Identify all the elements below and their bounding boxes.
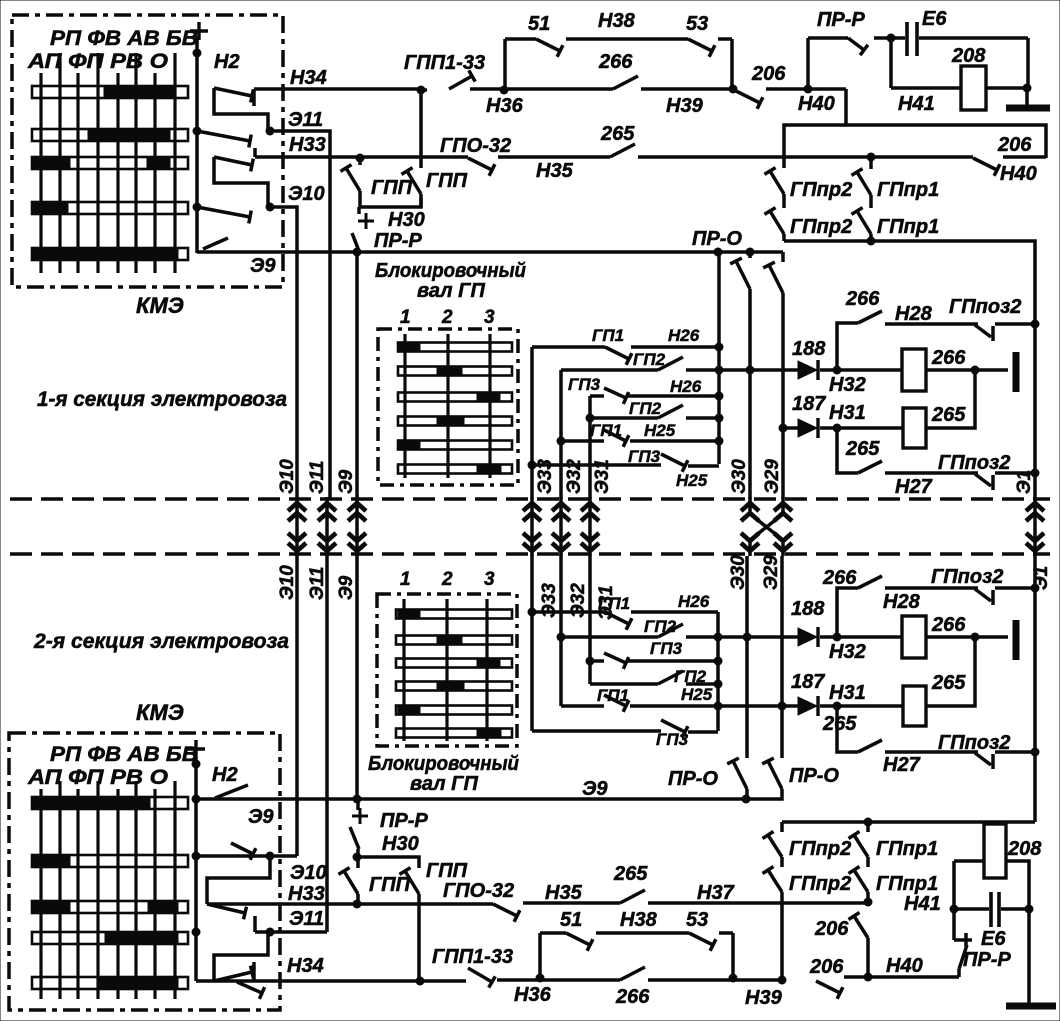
- svg-text:206: 206: [997, 134, 1032, 156]
- svg-text:2: 2: [441, 569, 453, 590]
- svg-text:1-я секция электровоза: 1-я секция электровоза: [37, 388, 287, 411]
- svg-text:3: 3: [484, 307, 495, 328]
- svg-text:206: 206: [751, 63, 786, 85]
- svg-text:Э29: Э29: [762, 459, 783, 494]
- svg-text:Н33: Н33: [289, 134, 326, 156]
- svg-text:Э9: Э9: [582, 778, 608, 800]
- svg-text:ПР-Р: ПР-Р: [963, 949, 1011, 971]
- svg-text:ГПП: ГПП: [371, 177, 413, 199]
- svg-text:3: 3: [484, 569, 495, 590]
- svg-text:Э11: Э11: [289, 908, 324, 930]
- svg-text:Н32: Н32: [829, 374, 866, 396]
- svg-text:ГПпоз2: ГПпоз2: [938, 732, 1010, 754]
- svg-text:Н38: Н38: [598, 10, 636, 32]
- svg-text:Е6: Е6: [981, 928, 1006, 950]
- svg-text:265: 265: [845, 438, 880, 460]
- svg-text:265: 265: [600, 123, 635, 145]
- svg-text:ГПпоз2: ГПпоз2: [938, 452, 1010, 474]
- svg-text:Н26: Н26: [670, 377, 702, 396]
- svg-text:Н31: Н31: [829, 402, 866, 424]
- svg-text:ГПпр2: ГПпр2: [790, 216, 852, 238]
- svg-text:ГПпр2: ГПпр2: [789, 838, 851, 860]
- svg-text:1: 1: [400, 569, 411, 590]
- svg-text:53: 53: [686, 13, 708, 35]
- svg-text:Н39: Н39: [666, 95, 704, 117]
- svg-text:ГПО-32: ГПО-32: [440, 135, 511, 157]
- svg-text:ГП3: ГП3: [656, 730, 689, 749]
- svg-text:265: 265: [613, 863, 648, 885]
- svg-text:266: 266: [615, 986, 650, 1008]
- svg-text:265: 265: [822, 713, 857, 735]
- svg-text:Н37: Н37: [697, 882, 735, 904]
- svg-text:ГП3: ГП3: [628, 447, 661, 466]
- svg-text:Н27: Н27: [883, 754, 921, 776]
- svg-text:Н35: Н35: [536, 160, 574, 182]
- svg-text:ГПпоз2: ГПпоз2: [931, 566, 1003, 588]
- svg-text:ПР-О: ПР-О: [789, 765, 839, 787]
- svg-text:Н36: Н36: [486, 95, 524, 117]
- svg-text:266: 266: [931, 347, 966, 369]
- svg-text:266: 266: [931, 614, 966, 636]
- svg-text:Н32: Н32: [829, 641, 866, 663]
- svg-text:Н25: Н25: [644, 421, 676, 440]
- svg-text:Н31: Н31: [829, 682, 866, 704]
- svg-text:2-я секция электровоза: 2-я секция электровоза: [33, 630, 289, 653]
- svg-text:вал ГП: вал ГП: [410, 773, 478, 795]
- svg-text:Н34: Н34: [290, 67, 327, 89]
- svg-text:Н2: Н2: [214, 51, 240, 73]
- svg-text:ПР-О: ПР-О: [668, 768, 718, 790]
- svg-text:ПР-Р: ПР-Р: [374, 230, 422, 252]
- svg-text:ГП1: ГП1: [598, 594, 630, 613]
- svg-text:Э9: Э9: [336, 469, 357, 494]
- svg-text:ГПП1-33: ГПП1-33: [404, 52, 485, 74]
- svg-text:Н40: Н40: [886, 955, 923, 977]
- svg-text:266: 266: [845, 288, 880, 310]
- svg-text:Э9: Э9: [250, 255, 276, 277]
- svg-text:ГПО-32: ГПО-32: [443, 880, 514, 902]
- svg-text:ГП1: ГП1: [592, 326, 624, 345]
- svg-text:187: 187: [791, 671, 825, 693]
- svg-text:188: 188: [792, 338, 826, 360]
- svg-text:Э11: Э11: [288, 109, 323, 131]
- svg-text:Н35: Н35: [545, 882, 583, 904]
- svg-text:ПР-Р: ПР-Р: [817, 9, 865, 31]
- svg-text:Э10: Э10: [290, 862, 327, 884]
- svg-text:Э29: Э29: [761, 555, 782, 590]
- svg-text:ГПпр1: ГПпр1: [877, 179, 939, 201]
- svg-text:Н34: Н34: [287, 955, 324, 977]
- svg-text:ГПП: ГПП: [369, 874, 411, 896]
- svg-text:Н25: Н25: [676, 471, 708, 490]
- svg-text:ГП3: ГП3: [568, 375, 601, 394]
- svg-text:266: 266: [598, 51, 633, 73]
- svg-text:РП ФВ АВ БВ: РП ФВ АВ БВ: [50, 27, 198, 50]
- svg-text:208: 208: [951, 45, 986, 67]
- svg-text:187: 187: [792, 393, 826, 415]
- svg-text:КМЭ: КМЭ: [136, 700, 184, 725]
- svg-text:Н26: Н26: [668, 326, 700, 345]
- svg-text:ГПпр2: ГПпр2: [789, 873, 851, 895]
- svg-text:Э11: Э11: [307, 567, 328, 600]
- svg-text:ПР-О: ПР-О: [692, 228, 742, 250]
- svg-text:Н40: Н40: [798, 93, 835, 115]
- svg-text:ГПП: ГПП: [426, 170, 468, 192]
- svg-text:Н41: Н41: [898, 93, 935, 115]
- svg-text:ГПпр1: ГПпр1: [876, 838, 938, 860]
- svg-text:Н25: Н25: [681, 685, 713, 704]
- svg-text:265: 265: [931, 672, 966, 694]
- svg-text:ГПпр1: ГПпр1: [877, 216, 939, 238]
- svg-text:265: 265: [931, 404, 966, 426]
- svg-text:266: 266: [822, 567, 857, 589]
- svg-text:ГП2: ГП2: [644, 617, 677, 636]
- svg-text:Э9: Э9: [336, 575, 357, 600]
- svg-text:Н36: Н36: [514, 984, 552, 1006]
- svg-text:ГПпр1: ГПпр1: [876, 873, 938, 895]
- svg-text:Э10: Э10: [288, 183, 325, 205]
- svg-text:Н26: Н26: [678, 592, 710, 611]
- svg-text:ГПпр2: ГПпр2: [790, 179, 852, 201]
- svg-text:Н30: Н30: [382, 833, 419, 855]
- svg-text:Н2: Н2: [212, 764, 238, 786]
- svg-text:ГПП1-33: ГПП1-33: [432, 946, 513, 968]
- svg-text:Н39: Н39: [745, 987, 783, 1009]
- svg-text:Н28: Н28: [883, 591, 921, 613]
- svg-text:51: 51: [528, 13, 550, 35]
- svg-text:206: 206: [809, 956, 844, 978]
- svg-text:вал ГП: вал ГП: [417, 280, 485, 302]
- svg-text:Н30: Н30: [388, 209, 425, 231]
- svg-text:Н40: Н40: [1000, 163, 1037, 185]
- svg-text:Блокировочный: Блокировочный: [368, 753, 519, 775]
- svg-text:Э9: Э9: [248, 806, 274, 828]
- svg-text:Блокировочный: Блокировочный: [375, 260, 526, 282]
- svg-text:КМЭ: КМЭ: [136, 293, 184, 318]
- svg-text:51: 51: [560, 909, 582, 931]
- svg-text:ГПП: ГПП: [426, 860, 468, 882]
- svg-text:ГП2: ГП2: [674, 667, 707, 686]
- svg-text:ГП3: ГП3: [650, 639, 683, 658]
- svg-text:ГП1: ГП1: [590, 421, 622, 440]
- svg-text:Э10: Э10: [277, 565, 298, 600]
- svg-text:2: 2: [441, 307, 453, 328]
- svg-text:Е6: Е6: [922, 8, 947, 30]
- svg-text:53: 53: [686, 909, 708, 931]
- svg-text:Э11: Э11: [307, 461, 328, 494]
- svg-text:188: 188: [791, 598, 825, 620]
- svg-text:ГПпоз2: ГПпоз2: [949, 296, 1021, 318]
- svg-text:Н33: Н33: [288, 883, 325, 905]
- svg-text:Э10: Э10: [277, 459, 298, 494]
- svg-text:ГП2: ГП2: [633, 350, 666, 369]
- svg-text:208: 208: [1007, 838, 1042, 860]
- svg-text:Н28: Н28: [895, 303, 933, 325]
- svg-text:ГП2: ГП2: [629, 399, 662, 418]
- svg-text:Э30: Э30: [729, 459, 750, 494]
- svg-text:ГП1: ГП1: [597, 686, 629, 705]
- svg-text:206: 206: [814, 918, 849, 940]
- svg-text:Н27: Н27: [895, 476, 933, 498]
- svg-text:РП ФВ АВ БВ: РП ФВ АВ БВ: [50, 743, 198, 766]
- svg-text:Н41: Н41: [904, 893, 941, 915]
- svg-text:ПР-Р: ПР-Р: [380, 810, 428, 832]
- svg-text:1: 1: [400, 307, 411, 328]
- svg-text:Н38: Н38: [620, 909, 658, 931]
